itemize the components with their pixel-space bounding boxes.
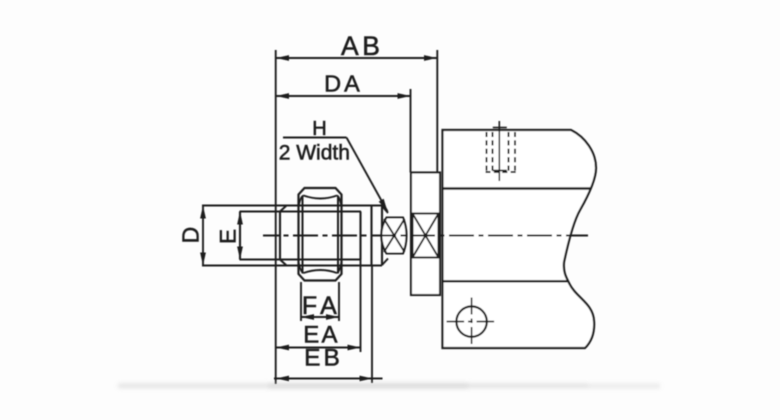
extension line: EB right [371,266,373,384]
extension line: right of DA [410,89,412,173]
clamp body: upper internal edge [443,187,591,189]
arrowhead FA left [301,314,314,320]
wire: rod tip face [239,212,241,260]
wire: rod end vertical at ball [381,206,383,266]
faint artifact band at bottom [118,383,660,389]
leader: H underline [283,137,347,139]
dimension line EA [276,347,361,349]
arrowhead leader (2 Width) [379,199,388,212]
clamp body: lower internal edge [443,280,568,282]
clamp body outline with wavy break edge [443,130,597,348]
hidden tapped hole (dashed) top of body [486,132,517,172]
svg-text:H: H [312,118,326,140]
extension line: FA right [338,282,340,321]
arrowhead D top [200,206,206,219]
wire: threaded rod outer diameter bottom line [202,264,382,266]
extension line: left (AB/DA/EA/EB) [275,50,277,384]
hidden tapped hole: tick cross top [493,127,507,129]
bottom hole: horizontal center mark [447,321,496,323]
wire: threaded rod outer diameter top line [202,204,382,206]
arrowhead EB left [276,376,289,382]
arrowhead DA right [398,93,411,99]
dimension line FA [301,316,339,318]
arrowhead EB right [360,376,373,382]
svg-text:DA: DA [324,71,363,97]
bottom hole circle [456,306,486,336]
wire: thread end vertical [359,212,361,260]
wire: washer edge vertical [370,206,372,266]
svg-text:EB: EB [304,345,343,372]
extension line: FA left [300,282,302,321]
ball end B1: cross line 2 [384,219,405,252]
leader: diagonal to ball [347,138,388,212]
main horizontal centerline [263,235,588,237]
hidden tapped hole: vertical centerline [498,121,500,181]
svg-text:D: D [178,227,204,244]
bottom hole: vertical center mark [471,298,473,346]
nut N1: left hex face line [302,196,304,274]
dimension line AB [276,57,438,59]
arrowhead AB right [424,55,437,61]
clamp arm bar: spindle cross box [413,214,439,258]
nut N1: bottom chamfer arcs [299,262,342,273]
clamp arm bar [411,173,440,296]
dimension line E (rod tip) [239,212,241,260]
arrowhead E top [237,212,243,225]
ball neck chamfer top [382,206,388,213]
ball neck chamfer bottom [382,259,388,266]
wire: thread runout vertical [279,211,281,261]
arrowhead D bottom [200,253,206,266]
arrowhead EA right [348,345,361,351]
ball end B1: spherical rod end with cross [381,218,406,254]
clamp arm bar: cross line 2 [413,214,439,258]
arrowhead DA left [276,93,289,99]
dimension line EB [274,378,383,380]
arrowhead AB left [276,55,289,61]
wire: thread root bottom line (left of nut) [240,259,362,261]
arrowhead EA left [276,345,289,351]
arrowhead E bottom [237,247,243,260]
svg-text:2 Width: 2 Width [279,142,350,165]
svg-text:AB: AB [341,31,383,61]
hidden tapped hole: tick cross bottom [493,170,507,172]
wire: thread root top line (left of nut) [240,211,362,213]
wire: runout chamfer bottom [280,260,287,266]
nut N1: top chamfer arcs [299,196,342,207]
nut N1: hex nut body outline [299,188,342,281]
dimension line D [202,206,204,266]
svg-text:FA: FA [302,292,341,320]
arrowhead FA right [326,314,339,320]
wire: runout chamfer top [280,206,287,212]
nut N1: right hex face line [337,196,339,274]
dimension line DA [276,95,411,97]
clamp arm bar: cross line 1 [413,214,439,258]
extension line: EA right [360,260,362,353]
extension line: right of AB [436,50,438,173]
ball end B1: cross line 1 [384,219,405,252]
svg-text:E: E [216,229,241,244]
